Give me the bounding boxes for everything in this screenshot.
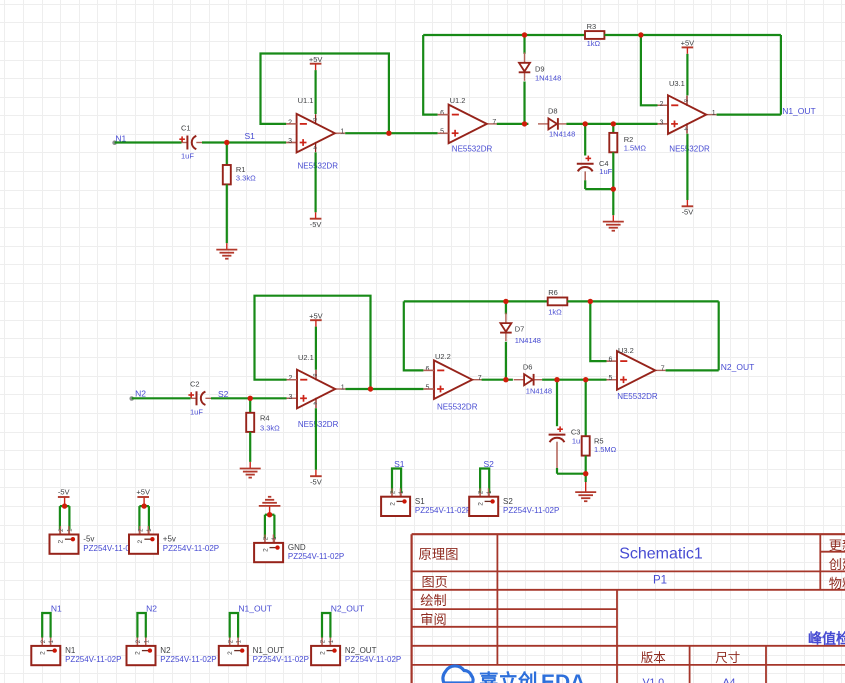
svg-text:5: 5 (440, 129, 444, 136)
svg-text:1: 1 (341, 384, 345, 391)
svg-text:版本: 版本 (641, 651, 667, 665)
svg-text:D8: D8 (548, 107, 558, 116)
svg-text:更新日期: 更新日期 (829, 538, 845, 553)
svg-text:1N4148: 1N4148 (515, 336, 541, 345)
svg-text:4: 4 (311, 146, 317, 149)
svg-text:NE5532DR: NE5532DR (437, 402, 478, 411)
svg-text:U1.2: U1.2 (450, 96, 466, 105)
svg-text:2: 2 (137, 540, 144, 544)
svg-text:7: 7 (661, 366, 665, 373)
svg-text:+5V: +5V (136, 488, 150, 497)
svg-text:1uF: 1uF (190, 407, 203, 416)
svg-text:2: 2 (659, 101, 663, 108)
svg-text:7: 7 (492, 119, 496, 126)
svg-text:3: 3 (659, 119, 663, 126)
svg-text:4: 4 (311, 402, 317, 405)
svg-text:3: 3 (288, 138, 292, 145)
svg-text:PZ254V-11-02P: PZ254V-11-02P (288, 552, 344, 561)
svg-text:6: 6 (608, 357, 612, 364)
svg-text:3: 3 (288, 394, 292, 401)
svg-text:5: 5 (425, 385, 429, 392)
svg-text:U3.1: U3.1 (669, 79, 685, 88)
svg-text:1uF: 1uF (599, 167, 612, 176)
svg-text:N2_OUT: N2_OUT (345, 646, 377, 655)
svg-text:2: 2 (58, 540, 65, 544)
svg-text:1: 1 (712, 110, 716, 117)
svg-text:1uF: 1uF (181, 152, 194, 161)
svg-text:-5V: -5V (310, 477, 322, 486)
svg-text:7: 7 (478, 375, 482, 382)
svg-text:C1: C1 (181, 124, 191, 133)
svg-text:R5: R5 (594, 437, 604, 446)
svg-text:2: 2 (477, 502, 484, 506)
svg-text:8: 8 (311, 374, 317, 377)
svg-text:NE5532DR: NE5532DR (669, 145, 710, 154)
svg-text:C3: C3 (571, 427, 581, 436)
svg-text:PZ254V-11-02P: PZ254V-11-02P (345, 655, 401, 664)
svg-text:S1: S1 (415, 497, 425, 506)
svg-text:4: 4 (682, 127, 688, 130)
svg-text:2: 2 (135, 651, 142, 655)
svg-text:原理图: 原理图 (418, 547, 458, 562)
svg-text:NE5532DR: NE5532DR (298, 161, 339, 170)
svg-text:-5V: -5V (58, 488, 70, 497)
svg-text:NE5532DR: NE5532DR (452, 144, 493, 153)
svg-text:1kΩ: 1kΩ (548, 307, 562, 316)
svg-text:NE5532DR: NE5532DR (298, 420, 339, 429)
svg-text:S2: S2 (503, 497, 513, 506)
svg-text:N1: N1 (65, 646, 76, 655)
svg-text:1kΩ: 1kΩ (587, 39, 601, 48)
svg-text:6: 6 (425, 366, 429, 373)
svg-text:2: 2 (40, 651, 47, 655)
svg-text:A4: A4 (723, 676, 736, 683)
svg-text:N2: N2 (146, 604, 157, 614)
svg-text:EDA: EDA (541, 671, 585, 683)
svg-text:N1: N1 (51, 604, 62, 614)
svg-text:1.5MΩ: 1.5MΩ (624, 143, 647, 152)
svg-text:物料编号: 物料编号 (829, 576, 845, 591)
svg-text:5: 5 (608, 375, 612, 382)
svg-text:2: 2 (319, 651, 326, 655)
svg-text:+5V: +5V (309, 55, 323, 64)
svg-text:N1_OUT: N1_OUT (238, 604, 272, 614)
svg-text:2: 2 (389, 502, 396, 506)
svg-text:创建日期: 创建日期 (829, 557, 845, 572)
svg-text:N1_OUT: N1_OUT (782, 106, 816, 116)
svg-text:6: 6 (440, 110, 444, 117)
svg-text:Schematic1: Schematic1 (619, 546, 703, 563)
svg-text:PZ254V-11-02P: PZ254V-11-02P (503, 506, 559, 515)
svg-text:1N4148: 1N4148 (549, 130, 575, 139)
svg-text:R3: R3 (587, 22, 597, 31)
svg-text:2: 2 (262, 548, 269, 552)
svg-text:S1: S1 (394, 459, 405, 469)
svg-text:-5V: -5V (682, 208, 694, 217)
svg-text:3.3kΩ: 3.3kΩ (260, 423, 280, 432)
svg-text:S2: S2 (484, 459, 495, 469)
svg-text:P1: P1 (653, 575, 667, 587)
svg-text:PZ254V-11-02P: PZ254V-11-02P (65, 655, 121, 664)
svg-text:U1.1: U1.1 (298, 96, 314, 105)
svg-text:+5V: +5V (681, 39, 695, 48)
svg-text:D6: D6 (523, 362, 533, 371)
svg-text:8: 8 (311, 118, 317, 121)
svg-text:3.3kΩ: 3.3kΩ (236, 173, 256, 182)
svg-text:尺寸: 尺寸 (715, 651, 740, 665)
svg-text:PZ254V-11-02P: PZ254V-11-02P (253, 655, 309, 664)
svg-text:PZ254V-11-02P: PZ254V-11-02P (160, 655, 216, 664)
svg-text:1: 1 (340, 129, 344, 136)
svg-text:+5V: +5V (309, 311, 323, 320)
svg-text:1.5MΩ: 1.5MΩ (594, 445, 617, 454)
svg-text:S1: S1 (245, 131, 256, 141)
svg-text:2: 2 (288, 375, 292, 382)
svg-text:R6: R6 (548, 288, 558, 297)
svg-text:N2: N2 (160, 646, 171, 655)
svg-text:U2.2: U2.2 (435, 352, 451, 361)
svg-text:R4: R4 (260, 413, 270, 422)
svg-text:2: 2 (227, 651, 234, 655)
svg-text:审阅: 审阅 (420, 612, 446, 627)
svg-text:峰值检测: 峰值检测 (808, 631, 845, 647)
svg-text:PZ254V-11-02P: PZ254V-11-02P (415, 506, 471, 515)
svg-text:PZ254V-11-02P: PZ254V-11-02P (163, 544, 219, 553)
svg-text:N1_OUT: N1_OUT (253, 646, 285, 655)
svg-text:嘉立创: 嘉立创 (478, 670, 538, 683)
svg-text:C2: C2 (190, 379, 200, 388)
svg-text:S2: S2 (218, 389, 229, 399)
svg-text:U3.2: U3.2 (618, 346, 634, 355)
svg-text:-5v: -5v (83, 535, 94, 544)
svg-text:绘制: 绘制 (420, 593, 446, 608)
svg-text:N2_OUT: N2_OUT (721, 362, 755, 372)
svg-text:+5v: +5v (163, 535, 176, 544)
svg-text:1N4148: 1N4148 (526, 387, 552, 396)
svg-text:-5V: -5V (310, 220, 322, 229)
svg-text:NE5532DR: NE5532DR (617, 392, 658, 401)
svg-text:图页: 图页 (422, 575, 448, 590)
svg-text:V1.0: V1.0 (642, 676, 664, 683)
svg-text:D9: D9 (535, 64, 545, 73)
svg-text:1N4148: 1N4148 (535, 73, 561, 82)
svg-text:GND: GND (288, 543, 306, 552)
svg-text:N2_OUT: N2_OUT (331, 604, 365, 614)
svg-text:2: 2 (288, 119, 292, 126)
svg-text:D7: D7 (515, 325, 525, 334)
svg-text:8: 8 (682, 99, 688, 102)
svg-text:U2.1: U2.1 (298, 353, 314, 362)
